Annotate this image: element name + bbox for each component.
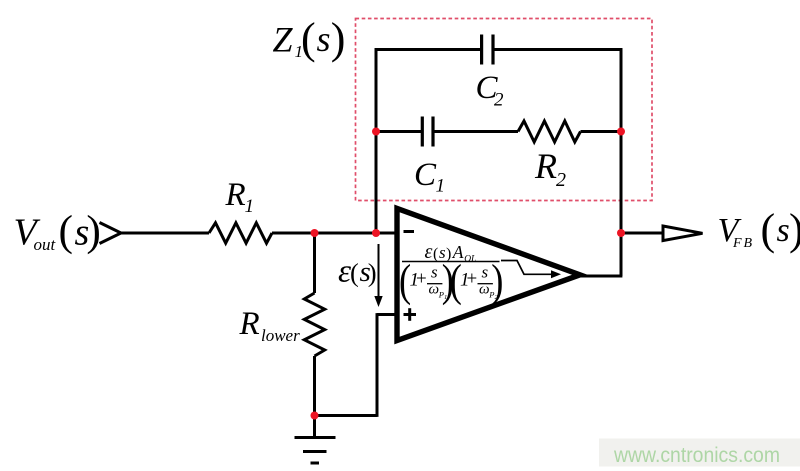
svg-text:(: (	[350, 258, 359, 288]
gain formula fraction bar	[402, 261, 500, 263]
wire: middle branch right of R2	[581, 130, 622, 133]
wire: up to plus input	[376, 313, 379, 417]
gain formula output step arrow	[501, 261, 552, 275]
node: middle branch right	[617, 128, 625, 136]
svg-text:ω: ω	[479, 282, 490, 298]
svg-text:OL: OL	[464, 255, 476, 265]
input terminal chevron Vout	[100, 223, 122, 244]
svg-text:): )	[331, 14, 346, 63]
wire: Rlower top lead	[313, 233, 316, 293]
op-amp plus pin mark	[404, 313, 417, 316]
wire: top branch right of C2	[495, 48, 623, 51]
wire: ground node to plus branch	[315, 414, 378, 417]
svg-text:(: (	[59, 207, 74, 255]
resistor R2	[518, 121, 581, 142]
resistor R1	[209, 223, 272, 243]
ground	[313, 416, 316, 438]
wire: feedback left vertical riser	[375, 48, 378, 233]
svg-text:s: s	[317, 19, 331, 59]
svg-text:(: (	[433, 246, 438, 263]
op-amp U1	[397, 208, 580, 340]
svg-text:s: s	[431, 263, 438, 282]
svg-text:+: +	[467, 269, 478, 290]
wire: output node to VFB arrow	[621, 232, 663, 235]
wire: middle branch C1 to R2	[435, 130, 519, 133]
svg-text:2: 2	[494, 90, 504, 111]
svg-text:s: s	[777, 212, 790, 249]
output terminal arrow VFB	[663, 226, 703, 241]
svg-text:R: R	[239, 306, 260, 342]
wire: R1 to op-amp minus input	[272, 232, 396, 235]
svg-text:ε: ε	[425, 241, 433, 263]
svg-text:+: +	[416, 269, 427, 290]
svg-text:C: C	[414, 157, 437, 193]
resistor Rlower	[304, 293, 324, 356]
wire: middle branch left of C1	[376, 130, 421, 133]
svg-text:R: R	[225, 177, 246, 213]
svg-text:R: R	[534, 146, 557, 186]
capacitor C2	[480, 35, 483, 65]
op-amp minus pin mark	[404, 230, 415, 233]
svg-text:2: 2	[556, 169, 566, 191]
svg-text:(: (	[301, 14, 316, 63]
wire: right vertical of feedback network	[620, 48, 623, 276]
svg-text:lower: lower	[261, 326, 300, 345]
svg-text:): )	[86, 207, 101, 255]
capacitor C1	[421, 117, 424, 147]
svg-text:s: s	[482, 263, 489, 282]
node: ground junction	[311, 412, 319, 420]
svg-text:1: 1	[245, 196, 255, 217]
watermark background band	[599, 439, 800, 467]
node: middle branch left	[372, 128, 380, 136]
wire: op-amp output	[578, 275, 622, 278]
wire: top branch left of C2	[375, 48, 480, 51]
wire: plus input horizontal	[377, 313, 397, 316]
svg-text:out: out	[34, 235, 57, 254]
node: feedback / minus input junction	[372, 229, 380, 237]
svg-text:): )	[789, 205, 800, 254]
svg-text:www.cntronics.com: www.cntronics.com	[613, 444, 780, 467]
svg-text:Z: Z	[273, 20, 294, 60]
svg-text:FB: FB	[732, 236, 754, 251]
svg-text:): )	[368, 258, 377, 288]
wire: Rlower bottom lead	[313, 356, 316, 416]
node: R1 / Rlower junction	[311, 229, 319, 237]
svg-text:): )	[491, 254, 503, 306]
wire: input to R1	[119, 232, 209, 235]
svg-text:ω: ω	[429, 282, 440, 298]
svg-text:1: 1	[436, 176, 446, 197]
dashed box Z1(s)	[356, 19, 653, 201]
svg-text:(: (	[761, 205, 776, 254]
node: output junction	[617, 229, 625, 237]
epsilon(s) annotation arrow	[378, 244, 380, 297]
